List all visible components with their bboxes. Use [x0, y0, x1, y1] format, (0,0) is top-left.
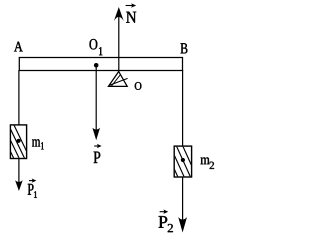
label m2 — [201, 157, 215, 169]
force P1 arrow — [15, 159, 23, 192]
label B — [181, 43, 188, 53]
label A — [14, 42, 23, 52]
mass m2 box — [158, 146, 197, 177]
beam AB — [19, 58, 182, 71]
right wire B to m2 — [182, 70, 184, 146]
left wire A to m1 — [18, 70, 20, 125]
label O1 — [90, 39, 103, 55]
label O (pivot) — [135, 82, 142, 90]
label P1 vector — [28, 178, 37, 197]
label m1 — [32, 139, 44, 149]
mass m1 box — [0, 125, 30, 159]
force P2 arrow — [178, 177, 187, 233]
force N arrow — [114, 7, 124, 72]
force P arrow — [92, 68, 100, 141]
pivot point dot O1 — [94, 63, 99, 68]
label N vector — [126, 3, 137, 23]
label P vector — [94, 144, 102, 163]
label P2 vector — [159, 209, 173, 232]
pivot triangle support O — [108, 72, 127, 87]
